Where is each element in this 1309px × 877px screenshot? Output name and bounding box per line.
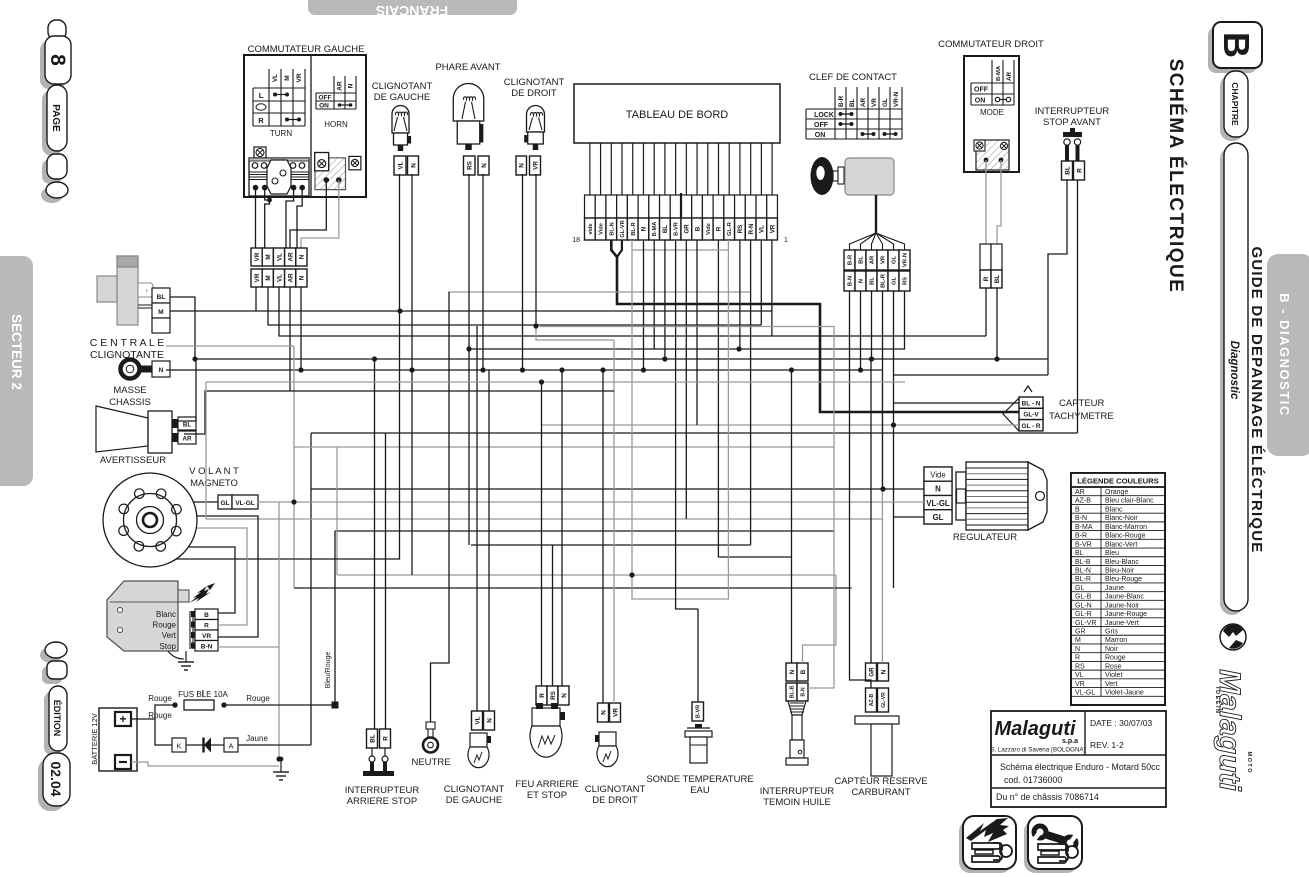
masse chassis ring [109,360,170,409]
svg-text:cod. 01736000: cod. 01736000 [1004,775,1062,785]
svg-text:R: R [983,276,990,281]
svg-text:Jaune-Noir: Jaune-Noir [1105,602,1140,609]
wire tableau RS drop [739,240,741,349]
wire gray clign D VR riser [613,340,615,703]
svg-text:BL-R: BL-R [631,222,637,235]
wire tableau VL drop [760,240,762,325]
wire gray y519 [206,518,882,520]
svg-text:COMMUTATEUR DROIT: COMMUTATEUR DROIT [938,39,1044,50]
svg-text:RS: RS [467,161,474,170]
svg-text:Blanc-Noir: Blanc-Noir [1105,515,1138,522]
svg-text:INTERRUPTEUR: INTERRUPTEUR [760,786,835,797]
svg-text:OFF: OFF [319,95,332,102]
svg-text:Gris: Gris [1105,629,1118,636]
wire clef BL-R drop [882,291,884,489]
wire tableau R-N drop [750,240,752,545]
svg-text:R: R [204,622,209,629]
svg-text:CLIGNOTANT: CLIGNOTANT [504,77,565,88]
svg-text:BL-R: BL-R [1075,576,1091,583]
wire batterie plus [131,705,175,719]
svg-text:VR: VR [254,273,261,282]
svg-text:R: R [539,693,546,698]
wire avertisseur AR jog y391 [184,391,614,434]
svg-text:Blanc-Marron: Blanc-Marron [1105,524,1147,531]
svg-text:B: B [1216,32,1257,58]
svg-text:ON: ON [975,98,986,105]
svg-text:N: N [299,254,306,259]
fusible 10A [148,690,270,720]
svg-text:VL: VL [272,74,279,82]
SECTEUR 2 left sidebar [0,256,33,486]
svg-text:VL: VL [1075,672,1084,679]
wire arriere stop R riser [385,433,387,729]
svg-text:B - DIAGNOSTIC: B - DIAGNOSTIC [1277,293,1292,417]
svg-text:R: R [258,116,264,125]
svg-text:BL-B: BL-B [1075,559,1091,566]
wire volant B [189,547,235,613]
svg-text:VL: VL [397,161,404,169]
clignotant droit pins N VR [516,156,527,175]
svg-text:RS: RS [550,691,557,700]
svg-text:B-MA: B-MA [996,65,1002,81]
svg-text:VR: VR [612,708,619,717]
interrupteur temoin huile [760,663,835,808]
clignotant de droit rear lamp [585,703,646,806]
svg-text:GL-R: GL-R [727,222,733,236]
svg-text:BATTERIE 12V: BATTERIE 12V [90,713,99,765]
svg-text:N: N [410,163,417,168]
svg-text:MODE: MODE [980,108,1004,117]
svg-text:RS: RS [1075,663,1085,670]
icon lightning mechanic [959,816,1016,873]
svg-text:VL-GL: VL-GL [1075,690,1095,697]
turn switch table [253,69,305,138]
connector J2 left switch row2 [251,269,307,287]
svg-text:DE GAUCHE: DE GAUCHE [374,92,430,103]
svg-text:N: N [299,275,306,280]
commutateur droit box [964,56,1019,172]
wire clef B-N drop [849,291,851,588]
wire arriere stop BL riser [374,359,376,729]
wire droit R drop [985,288,987,336]
svg-text:R-N: R-N [748,223,755,235]
svg-text:B-R: B-R [838,95,845,107]
svg-text:VL-GL: VL-GL [235,500,255,507]
wire key to connector thick [850,195,905,250]
svg-text:Bleu: Bleu [1105,550,1119,557]
svg-text:GUIDE DE DEPANNAGE ÉLÉCTRIQUE: GUIDE DE DEPANNAGE ÉLÉCTRIQUE [1248,246,1265,553]
svg-text:N: N [935,485,941,494]
svg-text:CAPTEUR: CAPTEUR [1059,398,1105,409]
svg-text:ON: ON [319,103,329,110]
clignotant de gauche rear lamp [444,711,505,806]
svg-text:I D E E I N: I D E E I N [1214,687,1220,713]
commutateur gauche U1 box [244,55,366,197]
svg-text:N: N [486,718,493,723]
svg-text:Rouge: Rouge [1105,655,1126,662]
svg-text:L: L [259,91,264,100]
svg-text:CARBURANT: CARBURANT [851,787,910,798]
wire gray y292 [448,291,751,293]
svg-text:B-N: B-N [800,687,806,696]
wire clignotant G VL long drop [176,174,400,559]
wire clign G N riser [488,370,490,711]
wire gray y425 tachymetre GL-R [542,424,1020,426]
svg-text:REV. 1-2: REV. 1-2 [1090,740,1124,750]
wire gray y575 [337,574,836,576]
wire tableau BL drop [664,240,666,359]
svg-text:R: R [716,226,723,231]
wire gray y346 [166,345,294,347]
svg-text:Vert: Vert [162,631,177,640]
svg-text:EAU: EAU [690,785,710,796]
svg-text:Blanc: Blanc [156,610,176,619]
CDI unit [107,581,215,651]
wire gray y327 [540,326,834,328]
svg-text:vide: vide [588,223,594,234]
svg-text:Vide: Vide [599,223,605,235]
svg-text:AR: AR [183,436,192,443]
svg-text:TABLEAU DE BORD: TABLEAU DE BORD [626,109,729,121]
svg-text:B-R: B-R [848,254,854,265]
svg-text:AZ-B: AZ-B [869,694,875,707]
wire commutateur AR drop [289,287,291,391]
svg-text:BL: BL [369,734,376,743]
wire tableau N drop [643,240,645,370]
wire gray capteur N riser [881,370,883,663]
svg-text:INTERRUPTEUR: INTERRUPTEUR [345,785,420,796]
svg-text:C E N T R A L E: C E N T R A L E [90,337,165,349]
tableau connector row empty [585,193,778,220]
wire gray to temoin B [803,575,837,663]
wire BL bus y359 [195,358,1048,360]
svg-text:B-N: B-N [201,643,213,650]
wire clignotant G N drop [411,174,413,575]
svg-text:Bleu-Rouge: Bleu-Rouge [1105,576,1142,583]
stop avant pins BL R [1062,161,1073,180]
svg-text:B-MA: B-MA [652,222,658,237]
svg-text:A: A [228,742,233,751]
svg-text:Noir: Noir [1105,646,1119,653]
svg-text:VR-N: VR-N [903,253,909,267]
svg-text:ÉDITION: ÉDITION [52,700,62,737]
svg-text:REGULATEUR: REGULATEUR [953,532,1017,543]
svg-text:Bleu-Blanc: Bleu-Blanc [1105,559,1139,566]
wire gray x294 upper [293,346,295,502]
wire gray x337 [336,447,338,575]
svg-text:RS: RS [737,225,744,234]
svg-text:R: R [1075,655,1080,662]
wire thick GL-V tachymetre [611,240,1019,412]
malaguti script logo right bottom [1213,669,1252,791]
svg-text:GL-V: GL-V [1023,412,1039,419]
wire y531 feu R [335,530,834,532]
interrupteur arriere stop [345,729,420,807]
clignotant de droit lamp [504,77,565,150]
svg-text:N: N [1075,646,1080,653]
wire clignotant D N drop [522,174,524,370]
wire volant VR [197,516,258,637]
svg-text:M: M [265,254,272,259]
svg-text:GL: GL [220,500,229,507]
svg-text:Jaune: Jaune [246,734,268,743]
svg-text:BL-N: BL-N [1075,567,1091,574]
svg-text:CHASSIS: CHASSIS [109,397,151,408]
svg-text:SECTEUR 2: SECTEUR 2 [9,314,24,390]
svg-text:Violet-Jaune: Violet-Jaune [1105,690,1144,697]
tableau de bord connector wires [590,143,772,195]
svg-text:N: N [600,710,607,715]
svg-text:GL-N: GL-N [1075,602,1092,609]
mode table [971,60,1014,117]
svg-text:OFF: OFF [814,122,829,129]
wire jaune diode [238,744,311,746]
wire gray VL-GL bus y502 [257,501,924,503]
svg-text:BL-N: BL-N [609,222,615,235]
svg-text:B-VR: B-VR [1075,541,1092,548]
wire gray ground riser x279 [278,502,280,759]
svg-text:Bleu clair-Blanc: Bleu clair-Blanc [1105,498,1154,505]
svg-text:B-VR: B-VR [696,705,702,718]
wire feu N riser [561,370,563,686]
clignotant de gauche lamp [372,81,433,151]
svg-text:ET STOP: ET STOP [527,790,567,801]
wire tableau GR drop [685,240,687,519]
batterie 12V [90,708,137,771]
svg-text:VR: VR [769,224,776,233]
svg-text:B-R: B-R [1075,533,1087,540]
svg-text:N: N [859,279,865,283]
svg-text:GR: GR [868,667,875,677]
svg-text:M: M [1075,637,1081,644]
svg-text:M: M [158,309,163,316]
svg-text:Rouge: Rouge [246,694,270,703]
wire regulateur GL pin [894,516,925,518]
wire clef BL drop [871,291,873,359]
wire commutateur N drop [300,287,302,370]
svg-text:DE DROIT: DE DROIT [511,88,557,99]
svg-text:Schéma électrique Enduro - Mo: Schéma électrique Enduro - Motard 50cc [1000,762,1160,772]
svg-text:B-N: B-N [848,276,854,286]
svg-text:BL: BL [870,277,876,285]
wire bus y349 [469,291,905,349]
wire jaune riser x311 [310,433,312,745]
wire stop avant BL [1048,180,1067,375]
svg-text:BL: BL [662,225,669,233]
svg-text:Bleu-Noir: Bleu-Noir [1105,567,1135,574]
wire gray y599 [632,250,728,599]
svg-text:Diagnostic: Diagnostic [1228,341,1240,400]
svg-text:VR: VR [254,252,261,261]
wire y375 [894,374,1049,376]
svg-text:AR: AR [1075,489,1085,496]
svg-text:PHARE AVANT: PHARE AVANT [435,62,500,73]
svg-text:GL: GL [892,256,898,265]
svg-text:+: + [145,289,149,295]
CDI pins B R VR B-N [191,609,218,651]
svg-text:N: N [481,163,488,168]
svg-text:VR: VR [532,161,539,170]
svg-text:18: 18 [572,237,580,244]
svg-text:TEMOIN HUILE: TEMOIN HUILE [763,797,831,808]
title block malaguti [990,711,1166,807]
svg-text:BL: BL [994,275,1001,284]
wire volant R gray [197,528,247,625]
horn switch table [316,76,356,129]
centrale pins BL M [152,288,170,303]
wire y588 [294,587,852,589]
wire stop avant R [1077,180,1079,433]
svg-text:BL: BL [1075,550,1084,557]
horn switch mechanism [315,153,361,190]
wire tableau R drop to y557 [718,240,792,557]
wire gray jog clign D VR [536,326,614,340]
svg-text:PAGE: PAGE [50,104,61,132]
diode with K A boxes [172,734,268,753]
right switch wires to connector [985,160,987,244]
svg-text:BL - N: BL - N [1022,400,1041,407]
svg-text:VL: VL [276,253,283,261]
svg-text:CLIGNOTANT: CLIGNOTANT [444,784,505,795]
wire temoin N riser [791,370,793,663]
wire batterie minus gray [131,762,279,766]
svg-text:R: R [382,736,389,741]
wire commutateur VR drop [255,287,257,311]
svg-text:N: N [880,669,887,674]
ground under CDI [168,651,194,670]
wire clign G VL riser [476,326,478,711]
long capsule right with Diagnostic [1220,143,1248,615]
svg-text:Bleu/Rouge: Bleu/Rouge [325,652,332,689]
svg-text:GL: GL [882,98,889,107]
wire gray y382 [206,381,905,383]
svg-text:CAPTÉUR RESERVE: CAPTÉUR RESERVE [834,776,927,787]
interrupteur stop avant [1035,106,1110,161]
svg-text:VL: VL [759,225,766,233]
wire gray y447 [294,446,834,448]
svg-text:STOP AVANT: STOP AVANT [1043,117,1101,128]
icon wrench mechanic [1024,816,1082,873]
clignotant gauche pins VL N [394,156,406,175]
svg-text:VR: VR [296,73,303,82]
svg-text:Stop: Stop [160,642,177,651]
tableau de bord box [574,84,780,143]
svg-text:GR: GR [684,224,691,234]
svg-text:GL-B: GL-B [1075,594,1092,601]
wire neutre riser [431,292,450,722]
svg-text:GL: GL [1075,585,1084,592]
svg-text:M O T O: M O T O [1246,751,1252,773]
clef de contact table [806,87,902,139]
svg-text:BL: BL [859,256,865,264]
svg-text:GL - R: GL - R [1021,423,1040,430]
wire gray x834 [808,326,834,688]
svg-text:BL: BL [183,422,191,429]
wire gray x294 lower [293,502,295,588]
svg-text:AR: AR [337,81,344,91]
svg-text:VR-N: VR-N [893,91,900,107]
svg-text:K: K [176,742,181,751]
svg-text:R: R [1076,168,1083,173]
svg-text:N: N [519,163,526,168]
svg-text:DATE : 30/07/03: DATE : 30/07/03 [1090,718,1152,728]
svg-text:CHAPITRE: CHAPITRE [1230,82,1240,126]
svg-text:VR: VR [1075,681,1085,688]
svg-text:AVERTISSEUR: AVERTISSEUR [100,455,166,466]
svg-text:B-VR: B-VR [674,222,680,236]
svg-text:Du n° de châssis 7086714: Du n° de châssis 7086714 [996,792,1099,802]
svg-text:N: N [159,367,164,374]
svg-text:Vert: Vert [1105,681,1118,688]
wire rouge to junction [224,704,332,706]
svg-text:DE GAUCHE: DE GAUCHE [446,795,502,806]
capteur reserve carburant [834,663,927,798]
chapitre B box right [1208,22,1262,73]
wire y545 RS [471,544,751,546]
svg-text:VR: VR [202,633,211,640]
wire y433 stop avant R [311,432,1078,434]
svg-text:8: 8 [46,54,69,66]
svg-text:B: B [1075,506,1080,513]
svg-text:GL-VR: GL-VR [620,220,626,237]
svg-text:02.04: 02.04 [48,761,64,796]
svg-text:Blanc-Rouge: Blanc-Rouge [1105,533,1146,540]
svg-text:Jaune: Jaune [1105,585,1124,592]
svg-text:M: M [284,75,291,80]
svg-text:Rouge: Rouge [152,621,176,630]
wire feu R riser [541,382,543,686]
svg-text:Rouge: Rouge [148,694,172,703]
svg-text:Jaune-Vert: Jaune-Vert [1105,620,1139,627]
svg-text:BL: BL [157,294,166,301]
svg-text:BL-B: BL-B [789,686,795,699]
B DIAGNOSTIC gray box [1267,254,1309,456]
svg-text:AR: AR [1006,71,1013,81]
svg-text:B-MA: B-MA [1075,524,1093,531]
svg-text:DE DROIT: DE DROIT [592,795,638,806]
svg-text:s.p.a: s.p.a [1062,738,1078,745]
wire bleu-rouge riser x335 [334,531,336,702]
wire centrale BL to BL bus [170,297,195,359]
svg-text:B: B [800,669,807,674]
wire N bus y370 [166,369,882,371]
wire bus y336 [279,287,986,336]
wire to diode K [155,719,172,745]
phare avant lamp [435,62,500,150]
wire CDI B-N gray [218,646,279,648]
CHAPITRE capsule [1220,71,1248,141]
svg-text:Violet: Violet [1105,672,1122,679]
wire tableau VR drop [771,240,773,336]
svg-text:VR: VR [871,98,878,107]
svg-text:BL: BL [1064,166,1071,175]
svg-text:ARRIERE STOP: ARRIERE STOP [347,796,418,807]
regulateur [924,462,1047,543]
connector J1 left switch row1 [251,248,307,266]
svg-text:+: + [119,712,126,726]
wire phare RS drop [468,174,470,545]
svg-text:N: N [561,693,568,698]
svg-text:LÉGENDE COULEURS: LÉGENDE COULEURS [1077,477,1158,486]
turn switch mechanism [249,147,309,196]
wire y489 regulateur N [311,488,924,490]
svg-text:INTERRUPTEUR: INTERRUPTEUR [1035,106,1110,117]
wire tableau B-MA drop [653,240,655,349]
svg-text:B: B [204,612,209,619]
wire clef N drop [860,291,862,370]
tableau connector row labels 18..1 [572,218,788,244]
svg-text:Vide: Vide [930,470,945,479]
